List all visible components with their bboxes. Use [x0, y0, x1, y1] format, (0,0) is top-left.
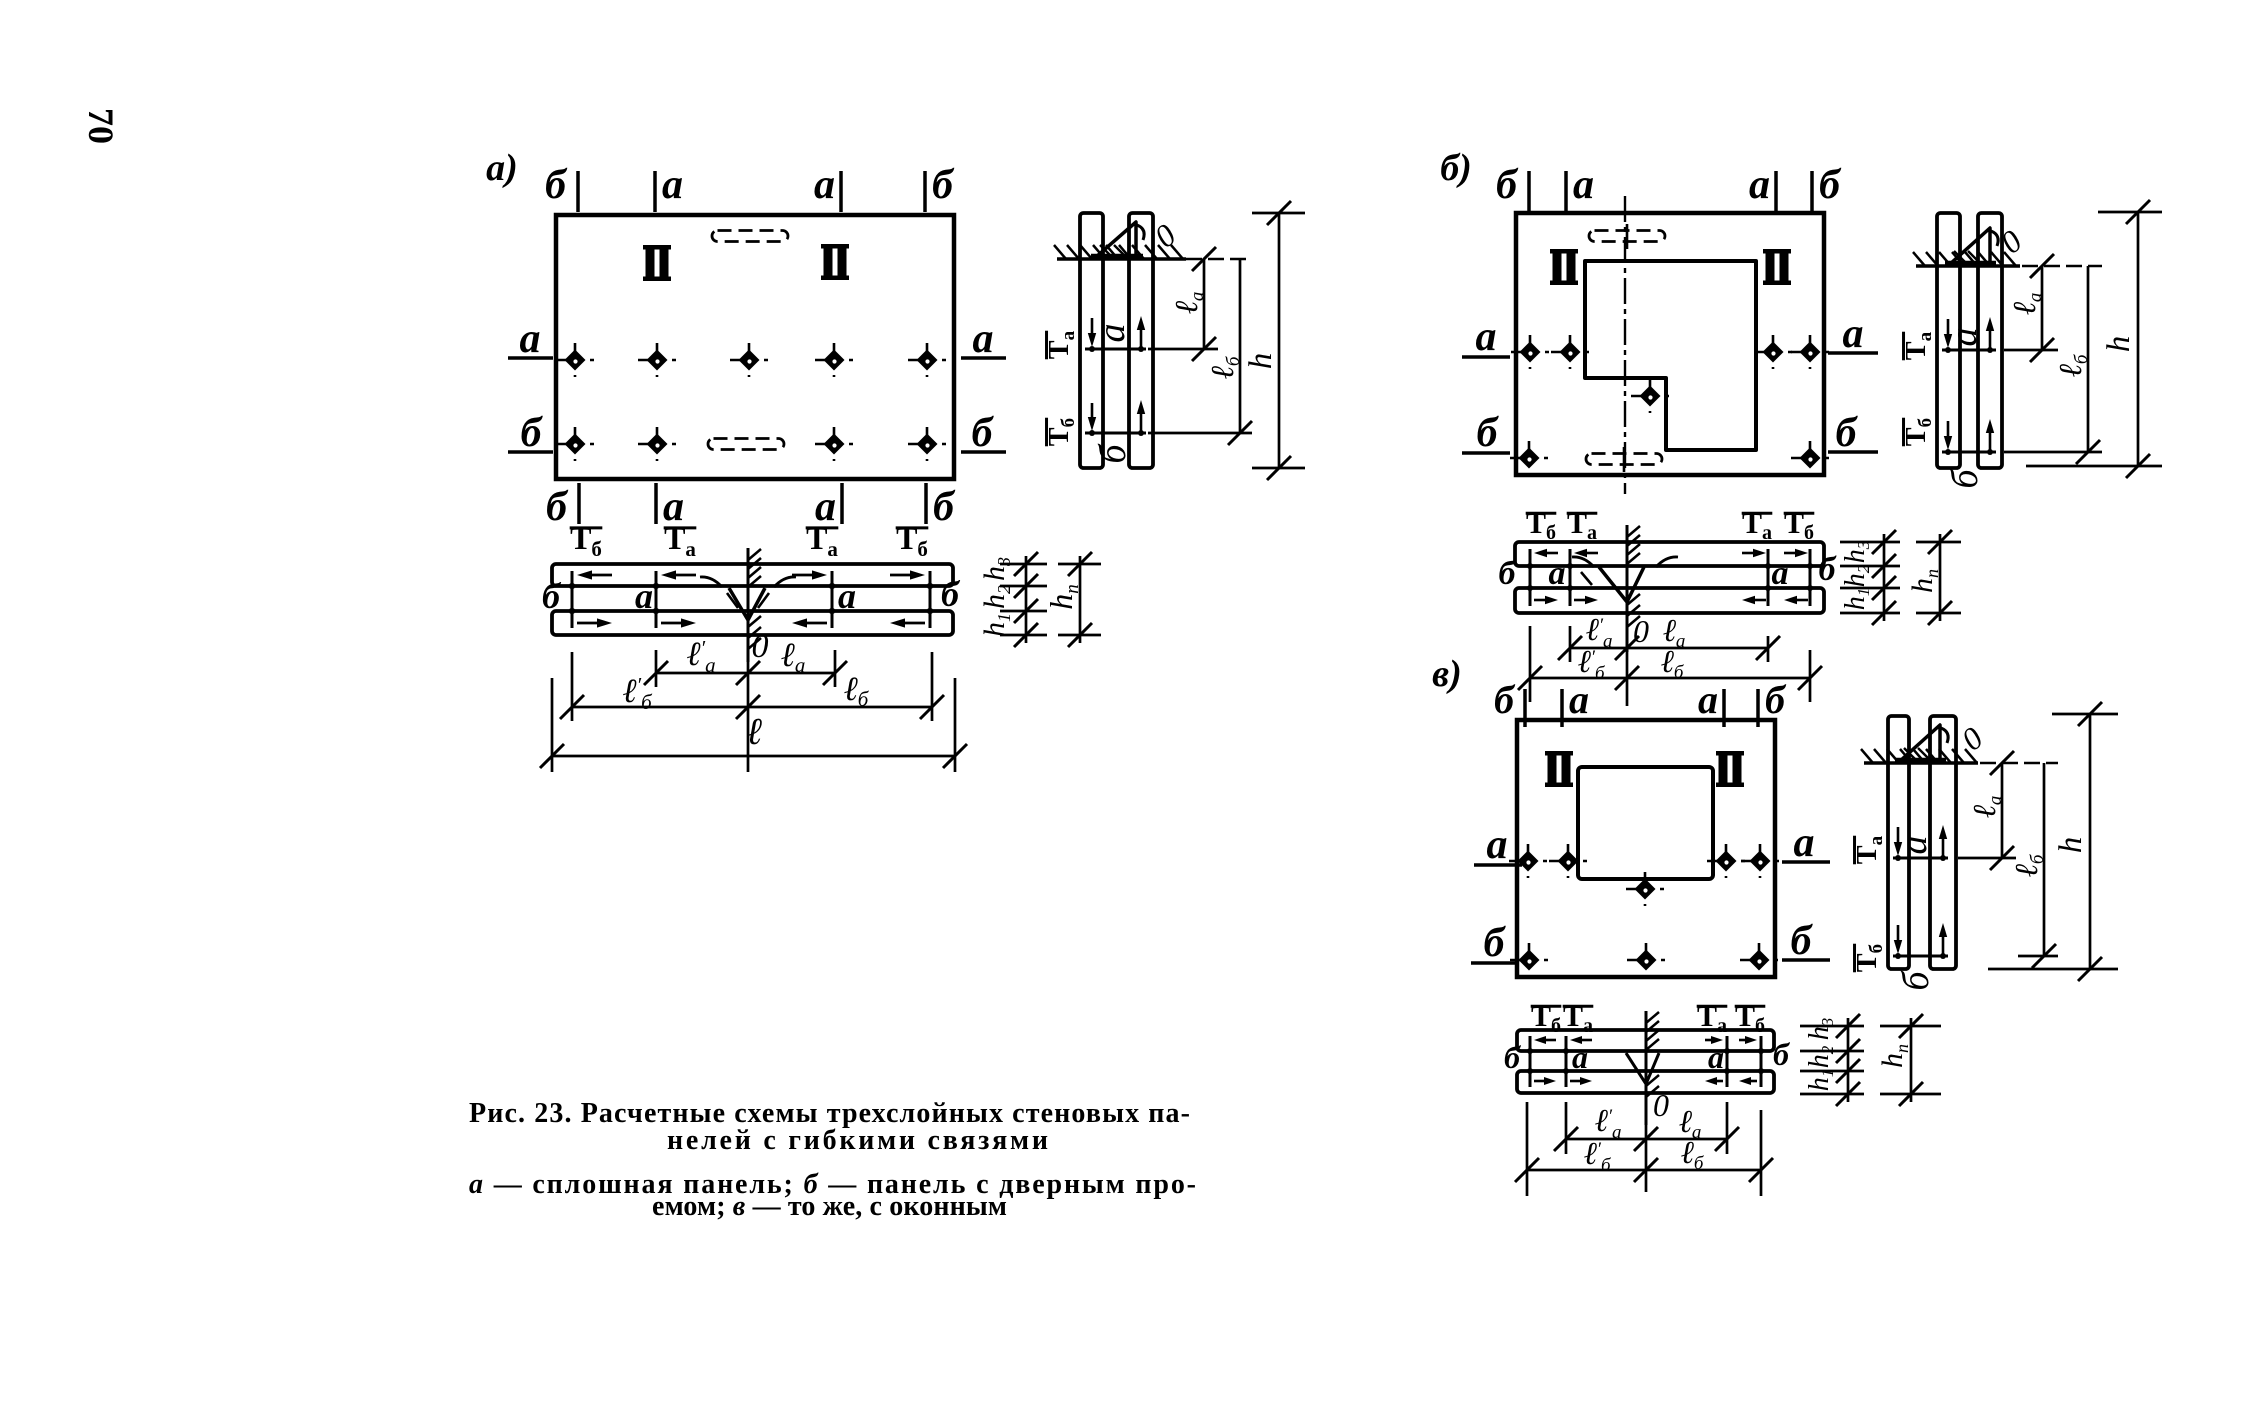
svg-text:Tб: Tб — [1852, 944, 1887, 972]
section II-II symbol right in panel a — [821, 244, 849, 280]
label Ta, vertical section a — [1044, 330, 1079, 359]
horizontal section b: outer bottom layer strip — [1515, 588, 1824, 613]
svg-text:ℓa: ℓa — [2006, 293, 2046, 316]
support triangle, vertical section v — [1900, 725, 1940, 761]
svg-text:h2: h2 — [1804, 1045, 1837, 1068]
shear arrows bottom layer, section b — [1534, 599, 1545, 602]
shear arrows top layer, section a — [592, 574, 612, 577]
horizontal section a: outer bottom layer strip — [552, 611, 953, 635]
dimension lb vertical section a — [1239, 259, 1242, 433]
svg-text:б: б — [933, 484, 956, 530]
door opening outline in panel b — [1585, 261, 1756, 450]
svg-text:б: б — [545, 162, 568, 208]
extension lines for dims below section b — [1529, 626, 1532, 702]
svg-text:a): a) — [486, 147, 518, 189]
svg-text:нелей с гибкими связями: нелей с гибкими связями — [667, 1125, 1048, 1156]
tie row b, vertical section b — [1942, 451, 1996, 454]
svg-text:h: h — [2101, 336, 2137, 353]
section mark b top-right of panel a — [923, 171, 927, 212]
svg-text:a: a — [1843, 311, 1864, 357]
section II-II symbol left in panel v — [1545, 751, 1573, 787]
vertical section a: right layer strip — [1129, 213, 1153, 468]
horizontal section b: outer top layer strip — [1515, 542, 1824, 566]
dimension la section v — [1646, 1138, 1727, 1141]
dimension hn section a — [1058, 563, 1101, 566]
svg-text:a: a — [1573, 162, 1594, 208]
curved gap dashes near axis top strip, section a — [700, 577, 722, 587]
svg-text:a: a — [973, 316, 994, 362]
svg-text:h: h — [2053, 837, 2089, 854]
tie row b, vertical section v — [1893, 955, 1948, 958]
svg-text:Ta: Ta — [664, 520, 696, 561]
svg-text:б: б — [1791, 918, 1814, 964]
dimension la vertical section v — [2001, 763, 2004, 858]
svg-text:б: б — [1944, 468, 1986, 489]
symmetry axis with hatching, section a — [747, 548, 750, 662]
label Ta, vertical section v — [1852, 835, 1887, 864]
svg-text:0: 0 — [752, 628, 769, 665]
vertical centerline panel b — [1624, 196, 1626, 494]
svg-text:hn: hn — [1906, 569, 1942, 593]
section mark a top-left of panel v — [1560, 689, 1564, 727]
extension lines, vertical section v dims — [1980, 762, 2058, 764]
label a between strips, vertical section b — [1943, 328, 1985, 347]
svg-text:Tб: Tб — [1901, 418, 1936, 446]
extension lines for dims below section v — [1526, 1102, 1529, 1196]
support V notch at axis, section v — [1626, 1053, 1659, 1084]
dimension lb section b — [1627, 677, 1810, 680]
svg-text:б: б — [1477, 410, 1500, 456]
section II-II symbol left in panel b — [1550, 249, 1578, 285]
svg-text:б: б — [1819, 162, 1842, 208]
flexible tie anchor at door step panel b — [1631, 379, 1669, 413]
svg-text:б: б — [1836, 410, 1859, 456]
label b below strips, vertical section v — [1895, 970, 1937, 991]
dimension la vertical section b — [2041, 266, 2044, 350]
label Tb, vertical section a — [1044, 418, 1079, 446]
svg-text:Ta: Ta — [1901, 331, 1936, 360]
label a between strips, vertical section v — [1893, 836, 1935, 855]
support V notch at axis, section a — [729, 588, 765, 620]
flexible tie anchors row b panel a — [556, 427, 594, 461]
vertical section v: right layer strip — [1930, 716, 1956, 969]
svg-text:Tб: Tб — [896, 520, 928, 561]
label Tb, vertical section v — [1852, 944, 1887, 972]
label 0 at support, vertical section b — [1993, 223, 2028, 261]
svg-text:ℓa: ℓa — [781, 637, 806, 677]
dimension l'a section b — [1570, 647, 1627, 650]
lifting slot bottom row b panel a — [708, 439, 784, 450]
label b between strips, vertical section a — [1092, 443, 1134, 464]
symmetry axis with hatching, section b — [1626, 525, 1629, 652]
section II-II symbol right in panel b — [1763, 249, 1791, 285]
svg-text:б: б — [546, 484, 569, 530]
svg-text:a: a — [814, 162, 835, 208]
svg-text:б: б — [1496, 162, 1519, 208]
dimension h vertical section a — [1278, 213, 1281, 468]
flexible tie anchors row a panel a — [556, 343, 594, 377]
flexible tie anchors row a panel b — [1511, 335, 1549, 369]
vertical section b: right layer strip — [1978, 213, 2002, 468]
svg-text:h: h — [1243, 353, 1279, 370]
dimension l'b section v — [1527, 1169, 1646, 1172]
svg-text:ℓa: ℓa — [1168, 292, 1208, 315]
horizontal section v: outer bottom layer strip — [1517, 1071, 1774, 1093]
dimension lb vertical section b — [2087, 266, 2090, 452]
svg-text:емом; в — то же, с оконным: емом; в — то же, с оконным — [652, 1191, 1007, 1222]
lifting slot bottom panel b — [1586, 454, 1662, 465]
dimension l'b section a — [572, 706, 748, 709]
svg-text:a: a — [1708, 1039, 1724, 1075]
svg-text:a: a — [1572, 1039, 1588, 1075]
svg-text:70: 70 — [81, 108, 121, 144]
panel b plan outline — [1516, 213, 1824, 475]
svg-text:ℓ′a: ℓ′a — [1595, 1102, 1622, 1143]
svg-text:б: б — [1499, 555, 1518, 592]
dimension l overall section a — [552, 755, 955, 758]
panel a plan outline — [556, 215, 954, 479]
ground line with hatching, vertical section b — [1916, 264, 2020, 268]
dimension hn section v — [1880, 1025, 1941, 1028]
dimension la vertical section a — [1203, 259, 1206, 349]
svg-text:ℓ: ℓ — [746, 711, 762, 753]
flexible tie anchors row b panel b — [1510, 441, 1548, 475]
section mark b top-right of panel b — [1810, 171, 1814, 212]
dimension la section b — [1627, 647, 1768, 650]
svg-text:б: б — [941, 574, 961, 614]
dimension l'b section b — [1530, 677, 1627, 680]
extension lines for dims below section a — [655, 650, 658, 687]
svg-text:Tб: Tб — [1044, 418, 1079, 446]
svg-text:б: б — [1765, 677, 1787, 722]
svg-text:h3: h3 — [978, 557, 1014, 581]
page number 70 rotated — [81, 108, 121, 144]
svg-text:б): б) — [1440, 147, 1472, 189]
vertical section v: left layer strip — [1888, 716, 1909, 969]
vertical section a: left layer strip — [1080, 213, 1103, 468]
svg-text:h2: h2 — [1840, 564, 1873, 587]
dimension h vertical section b — [2137, 212, 2140, 466]
flexible tie anchors row a panel v — [1509, 844, 1547, 878]
svg-text:б: б — [1092, 443, 1134, 464]
svg-text:б: б — [1819, 551, 1838, 588]
extension lines, vertical section a dims — [1186, 258, 1252, 260]
svg-text:h3: h3 — [1804, 1018, 1837, 1041]
svg-text:a: a — [1943, 328, 1985, 347]
svg-text:0: 0 — [1633, 613, 1649, 649]
svg-text:б: б — [1773, 1036, 1791, 1072]
flexible tie anchors row b panel v — [1510, 943, 1548, 977]
svg-text:a: a — [1569, 677, 1589, 722]
panel v plan outline — [1517, 720, 1775, 977]
svg-text:0: 0 — [1954, 720, 1989, 758]
dimension bracket h1 h2 h3 section b — [1883, 534, 1886, 621]
svg-text:ℓa: ℓa — [1966, 796, 2006, 819]
svg-text:a: a — [1549, 555, 1566, 592]
support triangle, vertical section b — [1950, 228, 1990, 264]
svg-text:б: б — [542, 576, 562, 616]
svg-text:a: a — [1794, 820, 1815, 866]
svg-text:a: a — [838, 576, 856, 616]
dimension bracket h1 h2 h3 section a — [1025, 556, 1028, 643]
svg-text:a: a — [1749, 162, 1770, 208]
tie row a, vertical section v — [1893, 857, 1948, 860]
dimension bracket h1 h2 h3 section v — [1847, 1018, 1850, 1102]
svg-text:hn: hn — [1876, 1044, 1912, 1068]
tie row b, vertical section a — [1085, 432, 1146, 435]
tie row a, vertical section b — [1942, 349, 1996, 352]
svg-text:ℓб: ℓб — [2052, 353, 2092, 377]
label 0 at support, vertical section a — [1147, 217, 1182, 255]
dimension h vertical section v — [2089, 714, 2092, 969]
extension lines, vertical section b dims — [2022, 265, 2102, 267]
svg-text:a: a — [1091, 324, 1133, 343]
section mark a top-left of panel a — [653, 171, 657, 212]
flexible tie anchor below window panel v — [1626, 872, 1664, 906]
label Ta, vertical section b — [1901, 331, 1936, 360]
svg-text:Ta: Ta — [1044, 330, 1079, 359]
dimension l'a section a — [656, 672, 748, 675]
svg-text:в): в) — [1432, 653, 1462, 695]
svg-text:a: a — [662, 162, 683, 208]
svg-text:h3: h3 — [1840, 541, 1873, 564]
window opening outline in panel v — [1578, 767, 1713, 879]
dimension lb vertical section v — [2043, 763, 2046, 956]
svg-text:hn: hn — [1043, 584, 1083, 610]
svg-text:б: б — [1494, 677, 1516, 722]
svg-text:a: a — [635, 576, 653, 616]
svg-text:a: a — [1698, 677, 1718, 722]
label a between strips, vertical section a — [1091, 324, 1133, 343]
ground line with hatching, vertical section v — [1864, 761, 1978, 765]
svg-text:h2: h2 — [978, 585, 1014, 609]
horizontal section v: outer top layer strip — [1517, 1030, 1774, 1051]
shear arrows bottom layer, section v — [1534, 1080, 1544, 1083]
dimension l'a section v — [1566, 1138, 1646, 1141]
section mark a bottom-left of panel a — [654, 483, 658, 524]
svg-text:ℓб: ℓб — [1204, 355, 1244, 379]
svg-text:ℓб: ℓб — [844, 671, 870, 711]
support triangle at top, vertical section a — [1096, 222, 1136, 257]
label 0 at support, vertical section v — [1954, 720, 1989, 758]
section mark a top-left of panel b — [1564, 171, 1568, 212]
svg-text:б: б — [1484, 920, 1507, 966]
svg-text:б: б — [972, 410, 995, 456]
tie bars through layers, section v — [1529, 1036, 1532, 1087]
section II-II symbol left in panel a — [643, 245, 671, 281]
section mark b top-right of panel v — [1756, 689, 1760, 727]
svg-text:ℓ′a: ℓ′a — [686, 636, 715, 677]
tie row a, vertical section a — [1085, 348, 1146, 351]
layer thickness extension lines right of section a — [1000, 563, 1047, 566]
svg-text:h1: h1 — [1840, 588, 1873, 611]
layer thickness extension lines right of section v — [1800, 1025, 1864, 1028]
svg-text:a: a — [1476, 314, 1497, 360]
dimension lb section v — [1646, 1169, 1761, 1172]
shear arrows top layer, section v — [1546, 1039, 1556, 1042]
svg-text:h1: h1 — [978, 613, 1014, 637]
dimension hn section b — [1916, 541, 1961, 544]
symmetry axis with hatching, section v — [1645, 1011, 1648, 1125]
label Tb, vertical section b — [1901, 418, 1936, 446]
svg-text:б: б — [1895, 970, 1937, 991]
shear arrows bottom layer, section a — [577, 622, 597, 625]
lifting slot top panel b — [1589, 231, 1665, 242]
svg-text:б: б — [521, 410, 544, 456]
tie bars through layers, section b — [1529, 549, 1532, 606]
shear arrows top layer, section b — [1547, 552, 1558, 555]
support V notch at axis, section b — [1599, 567, 1644, 602]
svg-text:б: б — [932, 162, 955, 208]
svg-text:a: a — [1772, 555, 1789, 592]
svg-text:0: 0 — [1653, 1087, 1669, 1123]
svg-text:a: a — [520, 316, 541, 362]
label b below strips, vertical section b — [1944, 468, 1986, 489]
svg-text:б: б — [1504, 1039, 1522, 1075]
svg-text:Ta: Ta — [1852, 835, 1887, 864]
horizontal section a: outer top layer strip — [552, 564, 953, 586]
dimension la section a — [748, 672, 835, 675]
svg-text:a: a — [1487, 822, 1508, 868]
lifting slot top in panel a — [712, 231, 788, 242]
svg-text:a: a — [1893, 836, 1935, 855]
vertical section b: left layer strip — [1937, 213, 1960, 468]
ground line with hatching, vertical section a — [1057, 257, 1186, 261]
tie bars through layers, section a — [571, 571, 574, 628]
svg-text:Tб: Tб — [570, 520, 602, 561]
dimension lb section a — [748, 706, 932, 709]
layer thickness extension lines right of section b — [1840, 541, 1900, 544]
section II-II symbol right in panel v — [1716, 751, 1744, 787]
